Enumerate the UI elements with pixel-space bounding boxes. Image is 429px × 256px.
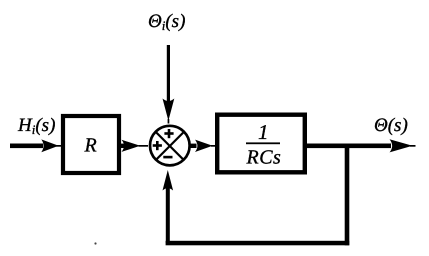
svg-text:Hi(s): Hi(s) [17,115,55,137]
svg-text:RCs: RCs [246,147,282,169]
svg-text:1: 1 [258,120,269,144]
diagonal X lines [156,132,183,159]
node feedback tap [345,146,350,148]
wire input to R [10,144,43,149]
block 1/RCs [217,115,305,173]
summing junction circle [150,126,190,166]
arrowhead output [390,139,416,152]
arrowhead up into summing junction [163,170,174,191]
label Theta(s) output signal [374,115,408,136]
svg-text:Θi(s): Θi(s) [148,11,185,33]
speck artifact dot [94,242,96,244]
label Theta-i(s) top input signal [148,11,185,33]
wire top input down to summing junction [167,45,170,101]
arrowhead into summing junction [122,140,149,152]
svg-text:Θ(s): Θ(s) [374,115,408,136]
svg-text:R: R [84,135,97,157]
label Hi(s) input signal [17,115,55,137]
arrowhead down into summing junction [163,99,175,124]
wire summing junction to 1/RCs block [191,144,197,148]
wire R to summing junction [121,144,124,148]
wire 1/RCs block to output [303,144,391,149]
minus sign bottom sector [163,156,172,159]
plus sign left sector [153,141,162,150]
wire feedback vertical down from tap [345,146,350,246]
plus sign top sector [164,129,173,138]
wire feedback bottom horizontal [166,241,350,246]
arrowhead into R [41,139,63,152]
block R [63,116,119,173]
arrowhead into 1/RCs block [195,140,218,152]
wire feedback vertical up to summing junction [166,187,170,243]
